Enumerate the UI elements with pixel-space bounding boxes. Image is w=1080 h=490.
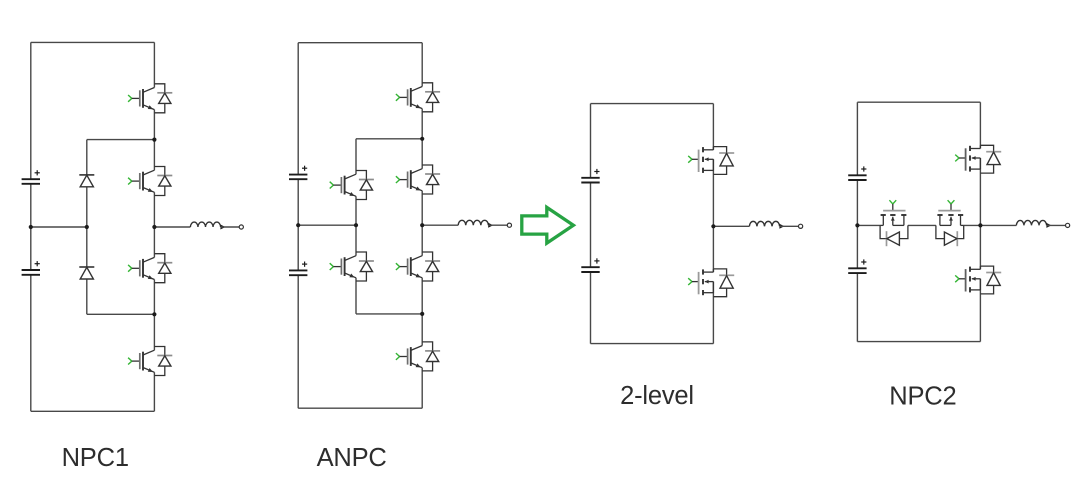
ANPC node1 wire xyxy=(356,138,422,140)
MOSFET M5 xyxy=(955,145,1001,173)
capacitor C4 xyxy=(289,262,307,276)
NPC1 output junction xyxy=(152,225,156,229)
2-level bottom wire xyxy=(591,343,714,345)
NPC1 node1 wire xyxy=(87,139,155,141)
IGBT T5 xyxy=(396,83,440,112)
ANPC bottom wire xyxy=(298,407,422,409)
ANPC midpoint wire xyxy=(298,224,356,226)
ANPC node2 wire xyxy=(356,313,422,315)
svg-text:NPC2: NPC2 xyxy=(889,383,956,411)
IGBT T6 xyxy=(396,165,440,194)
IGBT T3 xyxy=(128,254,172,283)
NPC2 top wire xyxy=(857,101,980,103)
ANPC main branch wire xyxy=(421,43,423,409)
MOSFET M6 xyxy=(955,266,1001,294)
NPC2 left rail wire xyxy=(856,102,858,341)
wire output to inductor L2 xyxy=(422,224,458,226)
wire inductor L1 to terminal xyxy=(221,226,240,228)
IGBT T7 xyxy=(396,252,440,281)
wire output to inductor L1 xyxy=(154,226,190,228)
2-level top wire xyxy=(591,103,714,105)
NPC1 midpoint rail junction xyxy=(29,225,33,229)
NPC1 top wire xyxy=(31,41,155,43)
current arrow of L1 xyxy=(220,225,225,230)
NPC1 clamp branch wire xyxy=(86,140,88,315)
NPC2 bottom wire xyxy=(857,341,980,343)
inductor L4 xyxy=(1016,220,1046,225)
NPC1 midpoint clamp junction xyxy=(85,225,89,229)
wire inductor L4 to terminal xyxy=(1047,224,1066,226)
diode D1 xyxy=(79,175,94,187)
capacitor C5 xyxy=(581,169,599,183)
ANPC top wire xyxy=(298,42,422,44)
NPC1 node1 junction xyxy=(152,138,156,142)
NPC1 midpoint wire xyxy=(31,226,87,228)
capacitor C8 xyxy=(848,259,866,273)
NPC2 output junction xyxy=(978,223,982,227)
NPC1 bottom wire xyxy=(31,410,155,412)
wire inductor L2 to terminal xyxy=(488,224,507,226)
inductor L3 xyxy=(749,221,779,226)
NPC1 node2 junction xyxy=(152,312,156,316)
output terminal after L2 xyxy=(507,223,511,227)
MOSFET M1 xyxy=(688,147,734,175)
capacitor C2 xyxy=(22,261,40,275)
svg-text:NPC1: NPC1 xyxy=(62,444,129,472)
output terminal after L3 xyxy=(799,224,803,228)
2-level output junction xyxy=(711,224,715,228)
output terminal after L4 xyxy=(1066,223,1070,227)
wire inductor L3 to terminal xyxy=(780,225,799,227)
MOSFET M8 xyxy=(936,200,964,246)
output terminal after L1 xyxy=(239,225,243,229)
NPC1 node2 wire xyxy=(87,313,155,315)
ANPC midpoint rail junction xyxy=(296,223,300,227)
IGBT T4 xyxy=(128,347,172,376)
capacitor C3 xyxy=(289,166,307,180)
wire output to inductor L4 xyxy=(980,224,1016,226)
NPC1 left rail wire xyxy=(30,42,32,411)
wire output to inductor L3 xyxy=(713,225,749,227)
IGBT T10 xyxy=(330,252,374,281)
ANPC output junction xyxy=(420,223,424,227)
2-level main branch wire xyxy=(712,104,714,344)
diode D2 xyxy=(79,267,94,279)
ANPC midpoint clamp junction xyxy=(354,223,358,227)
capacitor C7 xyxy=(848,166,866,180)
NPC2 midpoint wire segment 3 xyxy=(964,224,981,226)
ANPC node1 junction xyxy=(420,137,424,141)
green arrow xyxy=(522,207,574,243)
NPC1 main branch wire xyxy=(153,42,155,411)
2-level left rail wire xyxy=(590,104,592,344)
svg-text:2-level: 2-level xyxy=(620,382,694,410)
ANPC node2 junction xyxy=(420,312,424,316)
inductor L2 xyxy=(458,220,488,225)
capacitor C1 xyxy=(22,170,40,184)
svg-text:ANPC: ANPC xyxy=(317,444,387,472)
NPC2 midpoint rail junction xyxy=(855,223,859,227)
IGBT T9 xyxy=(330,171,374,200)
ANPC left rail wire xyxy=(297,43,299,409)
IGBT T2 xyxy=(128,167,172,196)
MOSFET M2 xyxy=(688,269,734,297)
NPC2 midpoint wire segment 1 xyxy=(857,224,880,226)
IGBT T8 xyxy=(396,342,440,371)
IGBT T1 xyxy=(128,84,172,113)
MOSFET M7 xyxy=(880,200,908,246)
current arrow of L2 xyxy=(488,223,493,228)
current arrow of L3 xyxy=(779,224,784,229)
inductor L1 xyxy=(190,222,220,227)
NPC2 midpoint wire segment 2 xyxy=(908,224,936,226)
current arrow of L4 xyxy=(1046,223,1051,228)
ANPC clamp branch wire xyxy=(355,139,357,314)
NPC2 main branch wire xyxy=(979,102,981,341)
capacitor C6 xyxy=(581,258,599,272)
